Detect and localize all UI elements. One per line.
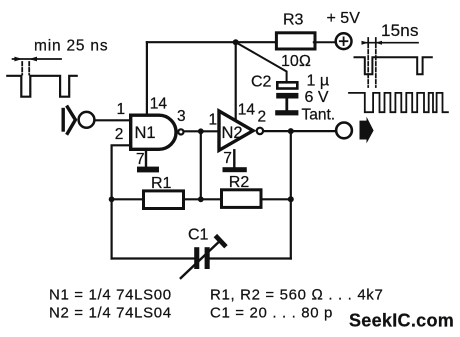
svg-text:10Ω: 10Ω: [281, 53, 311, 70]
wire N2 pin 14 to top rail: [235, 42, 237, 119]
wire R2 to right vertical: [261, 198, 291, 200]
node junction right: [288, 196, 294, 202]
C1 variable arrow: [181, 240, 221, 278]
op-amp/gate N1 (NAND 74LS00): [131, 115, 176, 149]
node junction A: [198, 128, 204, 134]
wire to R1: [112, 198, 144, 200]
output waveform upper: [355, 57, 432, 74]
output bubble N1: [178, 129, 183, 134]
node junction left (pin2/R1): [109, 196, 115, 202]
node junction B: [288, 128, 294, 134]
svg-text:C1: C1: [188, 227, 209, 244]
top rail wire: [147, 41, 277, 43]
svg-text:R3: R3: [283, 12, 304, 29]
svg-text:1: 1: [209, 112, 218, 129]
bottom rail wire left: [112, 257, 195, 259]
inverter N2 (74LS04): [219, 111, 253, 150]
capacitor C2: [277, 82, 297, 88]
ground N2: [223, 167, 247, 172]
svg-text:R1, R2 = 560 Ω . . . 4k7: R1, R2 = 560 Ω . . . 4k7: [210, 286, 383, 303]
wire C2 to ground: [285, 99, 288, 111]
dimension marker right (15ns width): [364, 38, 418, 87]
wire N1 output to N2 input: [184, 130, 218, 132]
svg-text:SeekIC.com: SeekIC.com: [349, 311, 454, 331]
svg-text:C2: C2: [251, 73, 272, 90]
svg-text:14: 14: [150, 96, 168, 113]
svg-text:N2: N2: [222, 124, 243, 142]
wire R1 to R2: [184, 198, 222, 200]
resistor R2: [222, 190, 262, 208]
wire N2 pin 7 stem: [233, 150, 235, 167]
svg-text:1: 1: [117, 101, 126, 118]
node junction mid (R1/R2): [198, 196, 204, 202]
node junction top rail: [233, 39, 239, 45]
capacitor C1 (variable): [194, 247, 199, 269]
output arrow: [360, 117, 374, 144]
dimension marker left (25ns width): [13, 59, 61, 75]
svg-text:min 25 ns: min 25 ns: [34, 38, 108, 55]
input waveform: [7, 76, 76, 97]
svg-text:2: 2: [258, 109, 267, 126]
output terminal circle: [336, 122, 352, 138]
svg-text:2: 2: [115, 126, 124, 143]
wire N1 pin 14 to top rail: [146, 42, 148, 115]
svg-text:N1: N1: [135, 124, 156, 142]
wire input to N1 pin 1: [96, 119, 131, 121]
svg-text:+ 5V: + 5V: [327, 10, 361, 27]
bottom rail wire right: [210, 257, 291, 259]
resistor R1: [144, 191, 184, 209]
svg-text:3: 3: [177, 108, 186, 125]
svg-text:7: 7: [136, 151, 145, 168]
svg-text:15ns: 15ns: [381, 21, 419, 40]
svg-text:1 µ: 1 µ: [307, 73, 330, 90]
svg-text:14: 14: [238, 102, 256, 119]
svg-text:6 V: 6 V: [305, 89, 329, 106]
wire node B down right vertical: [290, 131, 292, 258]
ground N1: [137, 167, 159, 173]
output waveform lower: [349, 93, 448, 112]
+5V terminal: [336, 33, 352, 49]
svg-text:C1 = 20 . . . 80 p: C1 = 20 . . . 80 p: [210, 304, 333, 321]
svg-text:Tant.: Tant.: [302, 107, 336, 124]
wire N1 pin 2 / left vertical: [112, 145, 130, 258]
svg-text:N1 = 1/4 74LS00: N1 = 1/4 74LS00: [49, 286, 172, 303]
wire R3 to +5V terminal: [314, 41, 336, 43]
svg-text:7: 7: [223, 150, 232, 167]
svg-text:N2 = 1/4 74LS04: N2 = 1/4 74LS04: [49, 304, 172, 321]
wire N1 pin 7 stem: [145, 150, 147, 167]
wire N2 output to output terminal: [263, 130, 336, 132]
output bubble N2: [257, 128, 263, 134]
ground C2: [275, 110, 298, 115]
input connector arrow: [63, 107, 75, 133]
wire rail to C2 (diagonal): [236, 42, 287, 82]
resistor R3: [276, 33, 315, 49]
input terminal circle: [79, 112, 95, 128]
wire node A down to R1/R2 junction: [200, 131, 202, 199]
